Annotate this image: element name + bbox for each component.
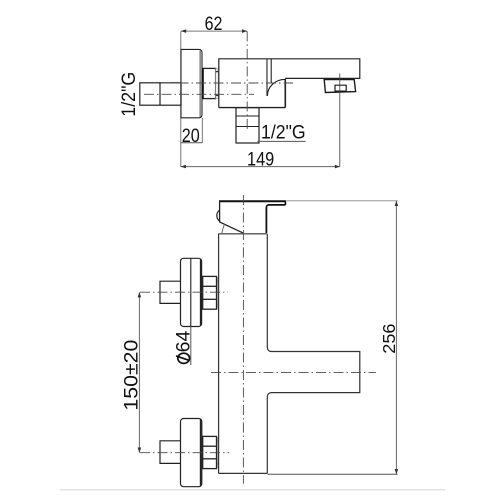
svg-text:149: 149	[247, 150, 274, 171]
svg-text:20: 20	[182, 125, 200, 147]
dimension 20 line	[181, 118, 203, 143]
svg-text:64: 64	[174, 330, 195, 352]
supply pipe stub (side view)	[140, 83, 181, 105]
svg-text:150±20: 150±20	[121, 340, 142, 411]
dimension 256 label (rotated)	[379, 324, 399, 354]
bottom extension line to 256 dim	[267, 473, 397, 475]
lever handle (plan)	[217, 200, 286, 234]
body block with spout (side view)	[219, 59, 360, 108]
upper hex nut	[203, 276, 219, 309]
label ø64 (rotated) with leader	[174, 326, 195, 365]
horizontal centerline upper (body axis)	[161, 82, 293, 84]
dimension 149 label	[247, 150, 274, 171]
svg-text:256: 256	[379, 324, 399, 354]
lower flange disc	[181, 419, 202, 487]
dimension 150±20 label (rotated)	[121, 340, 142, 411]
aerator axis line	[339, 74, 341, 167]
svg-text:1/2"G: 1/2"G	[261, 122, 306, 143]
upper flange disc	[181, 258, 202, 326]
lower supply stub (plan)	[160, 441, 180, 464]
extension line left (wall plane) x=180.8	[180, 31, 182, 167]
dimension 150±20 line	[138, 292, 142, 453]
dimension 20 label	[182, 125, 200, 147]
dimension 62 line	[181, 29, 247, 33]
extension line from lever top to 256 dim	[287, 200, 398, 202]
label 1/2"G left (rotated)	[119, 72, 140, 117]
shower outlet below body	[236, 108, 259, 143]
bar vertical centerline	[242, 195, 244, 484]
dimension 256 line	[395, 201, 399, 474]
wall flange (side view)	[181, 49, 202, 117]
dimension 149 line	[181, 165, 340, 169]
aerator at spout tip (side view)	[324, 80, 355, 93]
faint baseline artifact	[60, 489, 445, 491]
svg-text:1/2"G: 1/2"G	[119, 72, 140, 117]
dimension 62 label	[205, 14, 223, 35]
upper flange centerline	[140, 291, 228, 293]
upper supply stub (plan)	[160, 281, 180, 303]
connector step	[203, 68, 219, 98]
horizontal centerline lower (pipe axis)	[144, 93, 254, 95]
lower hex nut	[203, 436, 219, 468]
vertical centerline of cartridge	[246, 31, 248, 131]
svg-text:62: 62	[205, 14, 223, 35]
arm horizontal centerline	[211, 371, 376, 373]
body bar + spout arm outline (plan)	[219, 234, 360, 474]
lower flange centerline	[140, 452, 229, 454]
label 1/2"G bottom with leader	[258, 122, 306, 143]
fillet arc under spout	[267, 79, 285, 95]
